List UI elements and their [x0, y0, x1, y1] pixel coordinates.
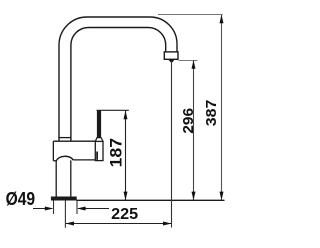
extension line column centre	[64, 200, 66, 227]
arrow 49 left-pointing	[77, 207, 86, 211]
aerator outlet	[168, 59, 175, 62]
column dome arc	[56, 156, 73, 161]
arrow 187 up	[124, 111, 128, 120]
arrow 296 down	[192, 192, 196, 201]
svg-text:187: 187	[107, 138, 126, 167]
extension line flange right (49)	[76, 200, 78, 214]
svg-text:225: 225	[111, 206, 138, 223]
handle base shading	[96, 152, 98, 160]
dimension line 225	[66, 223, 171, 225]
extension line spout outlet (296)	[179, 60, 198, 62]
arrow 49 right-pointing	[45, 207, 54, 211]
aerator tip	[164, 52, 178, 59]
mixer body left edge	[52, 141, 54, 161]
mixer body top	[53, 140, 95, 142]
mixer body bottom right	[73, 159, 95, 161]
handle base	[95, 141, 103, 160]
faucet spout tube inner edge	[71, 28, 166, 142]
handle lever stem	[97, 110, 101, 137]
countertop baseline	[76, 199, 224, 201]
dimension line diameter 49 left	[33, 208, 52, 210]
extension line handle top (187)	[97, 109, 129, 111]
arrow 225 right	[163, 222, 172, 226]
base flange	[51, 197, 76, 200]
extension line spout centre	[171, 62, 173, 227]
arrow 225 left	[65, 222, 74, 226]
pipe joint seam	[58, 137, 71, 139]
dimension line diameter 49 right	[78, 208, 109, 210]
extension line flange left (49)	[53, 200, 55, 214]
dimension line 387	[221, 15, 223, 200]
mixer body bottom left	[53, 160, 56, 162]
svg-text:387: 387	[203, 100, 220, 127]
dimension line 187	[125, 111, 127, 200]
svg-text:Ø49: Ø49	[6, 189, 35, 209]
faucet spout tube outer edge	[59, 17, 177, 141]
arrow 187 down	[124, 192, 128, 201]
dimension line 296	[193, 60, 195, 200]
arrow 296 up	[192, 60, 196, 69]
handle flare	[95, 138, 103, 142]
column right edge	[70, 160, 72, 197]
extension line faucet top (387)	[158, 14, 223, 16]
arrow 387 down	[220, 192, 224, 201]
svg-text:296: 296	[180, 108, 197, 134]
column left edge	[55, 161, 57, 197]
arrow 387 up	[220, 15, 224, 24]
